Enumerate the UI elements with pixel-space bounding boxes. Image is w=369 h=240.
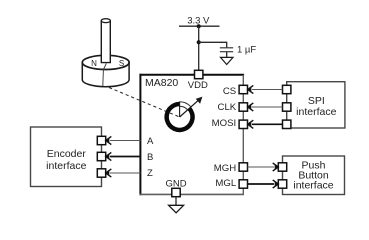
wire 3.3V rail [179, 25, 220, 27]
wire A [110, 140, 141, 142]
pin MGH [239, 163, 247, 171]
wire cap branch horizontal [199, 41, 227, 43]
ground (capacitor) [221, 57, 234, 64]
sensing ring annulus (black, with white wedge at top-right) [164, 102, 194, 132]
wire MOSI [252, 123, 283, 125]
SPI pin MOSI [283, 120, 291, 128]
svg-text:S: S [119, 59, 124, 68]
encoder pin B [97, 152, 105, 160]
SPI pin CS [283, 85, 291, 93]
ring rotation arrow [180, 100, 200, 117]
svg-text:MA820: MA820 [145, 77, 178, 89]
svg-text:VDD: VDD [188, 80, 208, 91]
Push Button interface box [283, 156, 345, 195]
wire Z [110, 172, 141, 174]
wire GND stem [175, 197, 177, 206]
pin MOSI [239, 120, 247, 128]
ring wedge outer thin arc [180, 102, 191, 107]
svg-text:1 µF: 1 µF [237, 45, 256, 56]
wire cap to ground [226, 52, 228, 58]
pin MGL [239, 180, 247, 188]
svg-text:B: B [147, 152, 153, 163]
magnet pole divider [103, 63, 106, 69]
svg-text:N: N [91, 59, 97, 68]
capacitor C1 plates [220, 47, 233, 49]
pin CS [239, 85, 247, 93]
push button pin MGH [278, 163, 286, 171]
svg-text:interface: interface [46, 160, 86, 172]
wire MGH [248, 166, 275, 168]
push button pin MGL [278, 180, 286, 188]
svg-text:A: A [147, 136, 154, 147]
ring wedge inner thin arc [180, 106, 188, 110]
ring reference line [179, 102, 181, 118]
SPI interface box [287, 82, 345, 128]
Encoder interface box [31, 127, 102, 187]
magnet disc [82, 55, 129, 86]
svg-text:CLK: CLK [218, 102, 237, 113]
wire cap branch vertical [226, 42, 228, 48]
svg-text:Z: Z [147, 168, 153, 179]
svg-text:Encoder: Encoder [47, 148, 87, 160]
wire CS [252, 89, 283, 91]
IC U1 MA820 body [141, 75, 244, 195]
ground (chip) [169, 205, 184, 213]
wire MGL [248, 183, 275, 185]
junction cap branch [197, 40, 201, 44]
svg-text:interface: interface [296, 106, 336, 118]
SPI pin CLK [283, 103, 291, 111]
svg-text:CS: CS [223, 86, 236, 97]
magnet dashed sight line [109, 88, 180, 118]
encoder pin A [97, 136, 105, 144]
magnet shaft [101, 19, 110, 63]
junction on rail [197, 24, 201, 28]
wire VDD vertical [198, 26, 200, 70]
svg-text:MGH: MGH [214, 163, 236, 174]
pin VDD [195, 70, 203, 78]
pin CLK [239, 103, 247, 111]
svg-text:MGL: MGL [215, 178, 236, 189]
svg-text:interface: interface [293, 180, 333, 192]
svg-text:MOSI: MOSI [212, 118, 237, 129]
wire CLK [252, 106, 283, 108]
wire B [110, 156, 141, 158]
encoder pin Z [97, 169, 105, 177]
